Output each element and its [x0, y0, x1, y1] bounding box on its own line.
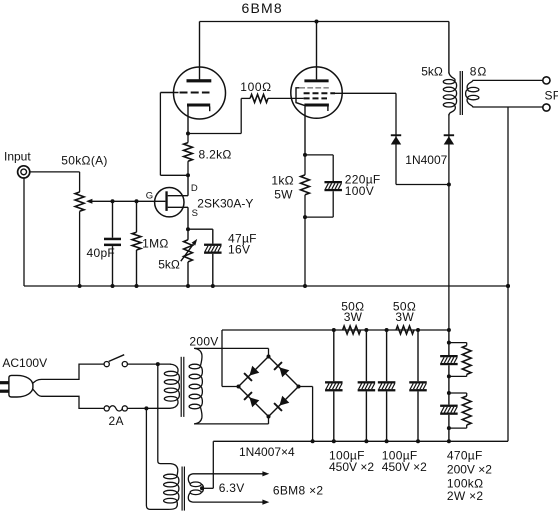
svg-text:200V: 200V [189, 335, 218, 349]
svg-text:1N4007×4: 1N4007×4 [239, 445, 295, 459]
svg-text:470µF: 470µF [447, 448, 483, 462]
svg-text:1kΩ: 1kΩ [271, 173, 294, 187]
svg-text:2A: 2A [109, 414, 124, 428]
svg-text:1MΩ: 1MΩ [142, 237, 169, 251]
svg-text:D: D [191, 183, 198, 194]
svg-text:1N4007: 1N4007 [405, 153, 447, 167]
svg-text:G: G [146, 191, 154, 202]
svg-text:8Ω: 8Ω [470, 64, 487, 78]
svg-text:50kΩ(A): 50kΩ(A) [61, 153, 107, 167]
svg-text:16V: 16V [228, 243, 250, 257]
svg-text:40pF: 40pF [87, 246, 116, 260]
svg-text:6.3V: 6.3V [219, 481, 245, 495]
svg-text:450V ×2: 450V ×2 [329, 460, 374, 474]
svg-text:S: S [192, 208, 199, 219]
svg-text:Input: Input [4, 150, 31, 164]
svg-text:5kΩ: 5kΩ [158, 258, 180, 272]
svg-text:3W: 3W [344, 310, 363, 324]
svg-text:5kΩ: 5kΩ [421, 64, 443, 78]
svg-text:200V ×2: 200V ×2 [447, 462, 492, 476]
svg-text:6BM8 ×2: 6BM8 ×2 [273, 484, 323, 498]
svg-text:100Ω: 100Ω [240, 80, 271, 94]
svg-text:8.2kΩ: 8.2kΩ [199, 147, 232, 161]
svg-text:SP: SP [545, 88, 558, 102]
svg-text:2W ×2: 2W ×2 [447, 489, 484, 503]
svg-text:5W: 5W [274, 187, 293, 201]
svg-text:100V: 100V [345, 184, 374, 198]
svg-text:3W: 3W [395, 310, 414, 324]
svg-text:2SK30A-Y: 2SK30A-Y [197, 197, 253, 211]
svg-text:AC100V: AC100V [2, 356, 47, 370]
svg-text:450V ×2: 450V ×2 [382, 460, 427, 474]
svg-text:6BM8: 6BM8 [242, 0, 283, 16]
